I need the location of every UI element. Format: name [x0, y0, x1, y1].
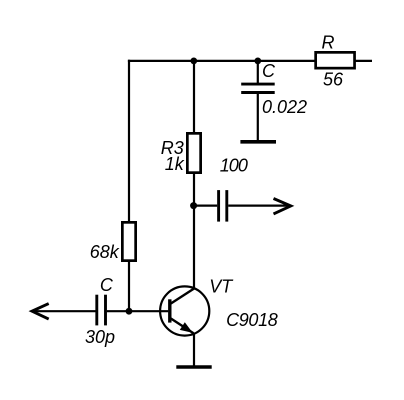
node junction top rail / C branch: [254, 58, 261, 65]
wire right of R: [355, 60, 373, 62]
wire R3 to junction: [193, 173, 195, 206]
capacitor C 30p: [97, 295, 106, 326]
ground bar below C: [240, 140, 276, 144]
ground: [176, 365, 211, 369]
svg-text:30p: 30p: [85, 327, 115, 347]
svg-text:68k: 68k: [90, 242, 120, 262]
svg-text:C: C: [100, 275, 114, 295]
arrow output: [274, 199, 291, 214]
svg-text:0.022: 0.022: [262, 97, 307, 117]
resistor R: [316, 52, 355, 68]
transistor VT C9018: [160, 286, 209, 335]
svg-text:C9018: C9018: [226, 310, 278, 330]
wire top rail: [128, 60, 316, 62]
wire left vertical upper: [128, 60, 130, 223]
wire emitter: [193, 334, 195, 367]
node junction top rail / R3 branch: [190, 58, 197, 65]
svg-text:56: 56: [323, 69, 344, 89]
svg-text:VT: VT: [209, 277, 234, 297]
wire left vertical lower: [128, 261, 130, 311]
wire collector: [193, 206, 195, 289]
svg-text:100: 100: [220, 156, 248, 176]
node base junction: [126, 308, 133, 315]
resistor R3: [187, 133, 200, 172]
wire output junction to capacitor: [194, 205, 218, 207]
wire base: [107, 310, 169, 312]
wire input to capacitor: [32, 310, 96, 312]
capacitor C 0.022: [241, 84, 275, 92]
wire R3 branch upper: [193, 61, 195, 134]
wire C branch upper: [257, 61, 259, 84]
wire output to arrow: [228, 205, 290, 207]
svg-text:C: C: [262, 61, 276, 81]
node collector / output junction: [190, 202, 197, 209]
arrow input: [32, 304, 49, 320]
wire C branch lower: [257, 94, 259, 142]
resistor 68k: [122, 222, 135, 260]
svg-text:R: R: [322, 33, 335, 53]
capacitor 100: [219, 190, 227, 222]
svg-text:1k: 1k: [165, 154, 185, 174]
